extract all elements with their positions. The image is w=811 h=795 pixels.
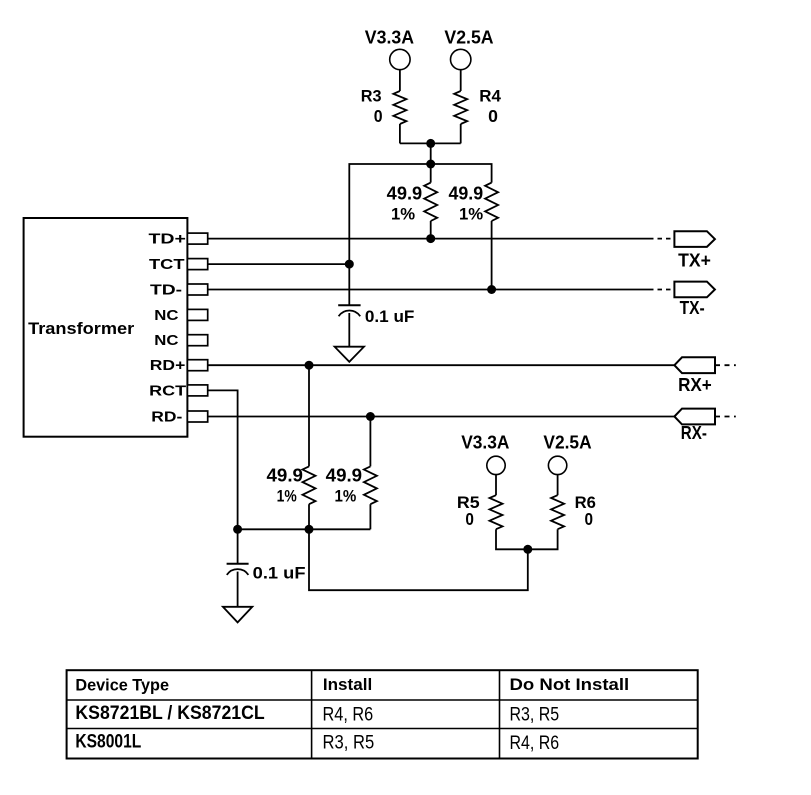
pin TD+ [149,232,208,248]
svg-text:0: 0 [465,509,474,529]
power V3.3A (bottom) [461,432,509,474]
pin NC [154,333,207,349]
svg-text:KS8001L: KS8001L [75,731,141,753]
resistor R5 [457,475,528,550]
svg-text:R3, R5: R3, R5 [323,731,375,753]
svg-text:R4: R4 [479,87,501,106]
power V2.5A (top) [444,28,493,70]
power V2.5A (bottom) [543,432,591,474]
svg-text:R3: R3 [361,87,382,106]
svg-text:49.9: 49.9 [326,466,362,486]
junction RCT-rail [233,525,242,534]
svg-text:0: 0 [374,106,383,126]
svg-text:49.9: 49.9 [267,466,304,486]
svg-text:V2.5A: V2.5A [543,432,591,452]
connector TX- [674,282,715,318]
svg-text:RX+: RX+ [678,374,712,395]
wire top rail [349,164,491,264]
svg-text:0: 0 [488,106,498,126]
svg-text:Do Not Install: Do Not Install [510,675,630,694]
svg-text:1%: 1% [277,488,297,506]
resistor R6 [528,475,596,550]
connector TX+ [674,231,715,270]
svg-text:RD+: RD+ [150,358,186,374]
svg-text:TD-: TD- [150,282,182,298]
junction TD+ tap [426,234,435,243]
svg-text:0: 0 [585,509,594,529]
svg-text:R4, R6: R4, R6 [323,704,374,726]
pin TD- [150,282,208,298]
wire TCT to capacitor [348,264,350,305]
junction R3-R4 [426,139,435,148]
junction rail-center [305,525,314,534]
resistor 49.9 1% (TX right) [449,183,499,290]
svg-text:49.9: 49.9 [449,184,484,204]
junction RD- tap [366,412,375,421]
svg-text:KS8721BL / KS8721CL: KS8721BL / KS8721CL [75,702,264,724]
wire RD- net [208,416,675,418]
wire TCT net [208,263,350,265]
wire RCT to capacitor [237,529,239,564]
wire TD- net [208,289,675,291]
table: device install options [67,670,698,758]
svg-text:Transformer: Transformer [28,319,135,338]
pin RD- [151,409,207,425]
svg-text:Install: Install [323,675,372,694]
svg-text:NC: NC [154,308,179,324]
svg-text:0.1 uF: 0.1 uF [253,564,306,583]
svg-text:RX-: RX- [681,422,707,443]
resistor R3 [361,70,407,144]
resistor 49.9 1% (TX left) [387,164,438,239]
junction R5-R6 [523,545,532,554]
svg-text:R3, R5: R3, R5 [510,703,560,725]
svg-text:Device Type: Device Type [75,676,169,695]
junction rail center [426,160,435,169]
transformer [24,218,188,437]
pin TCT [149,257,208,273]
connector RX- [674,409,735,443]
wire TD+ net [208,238,675,240]
wire rail to R5/R6 node [309,529,528,590]
svg-text:TCT: TCT [149,257,185,273]
svg-text:1%: 1% [391,206,415,224]
svg-text:NC: NC [154,333,179,349]
power V3.3A (top) [365,28,414,70]
svg-text:0.1 uF: 0.1 uF [365,307,415,326]
resistor R4 [454,70,501,144]
svg-text:TD+: TD+ [149,232,186,248]
junction TCT [345,260,354,269]
svg-text:V2.5A: V2.5A [444,28,493,48]
svg-text:1%: 1% [459,206,484,224]
ground (RX) [223,607,252,623]
wire RD+ net [208,364,675,366]
wire lower rail [238,528,371,530]
connector RX+ [674,357,735,395]
pin RD+ [150,358,208,374]
ground (TX) [335,347,364,362]
pin NC [154,308,207,324]
junction RD+ tap [305,361,314,370]
svg-text:RCT: RCT [149,383,186,399]
svg-text:RD-: RD- [151,409,182,425]
svg-text:TX+: TX+ [678,249,711,270]
svg-text:V3.3A: V3.3A [365,28,414,48]
svg-text:R4, R6: R4, R6 [510,732,560,754]
capacitor 0.1 uF (RX) [227,564,306,607]
wire R3/R4 junction to rail [400,143,461,164]
capacitor 0.1 uF (TX) [338,305,414,347]
pin RCT [149,383,208,399]
svg-text:1%: 1% [335,488,357,506]
junction TD- tap [487,285,496,294]
resistor 49.9 1% (RX right) [326,417,377,530]
svg-text:49.9: 49.9 [387,184,423,204]
wire RCT net [208,390,238,529]
resistor 49.9 1% (RX left) [267,365,316,529]
svg-text:V3.3A: V3.3A [461,432,509,452]
svg-text:TX-: TX- [680,297,705,318]
